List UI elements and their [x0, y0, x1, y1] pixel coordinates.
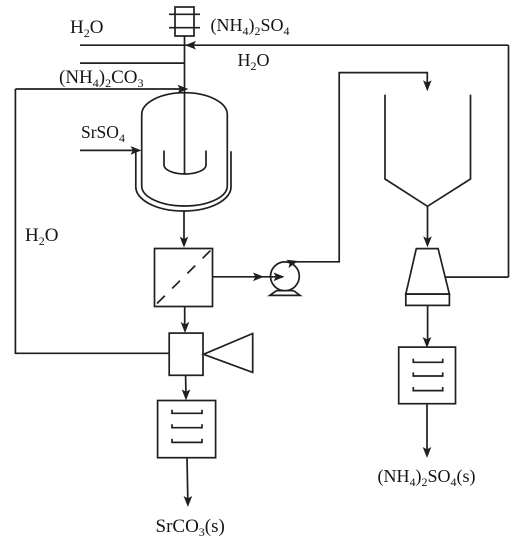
evaporator base: [406, 294, 450, 305]
wire: evaporator vapor line to right vertical: [446, 276, 509, 278]
wire: (NH4)2CO3 line (y=89): [15, 88, 181, 90]
evaporator body: [406, 249, 450, 295]
right dryer tray 1: [413, 359, 442, 363]
wire: wash water left vertical recycle: [15, 89, 169, 353]
wire: pump discharge to settler: [288, 73, 427, 262]
wire: H2O recycle right vertical: [508, 45, 510, 277]
filter F1: [155, 249, 213, 307]
wire: left dryer product out: [186, 458, 189, 499]
right dryer tray 3: [413, 387, 442, 391]
right tray dryer: [399, 347, 456, 404]
reactor jacket: [136, 151, 231, 211]
wire: H2O feed line (top, y=45) from left to right edge: [80, 44, 509, 46]
pump P1: [270, 262, 300, 296]
wire: SrSO4 feed arrow: [80, 149, 133, 151]
svg-text:(NH4)2CO3: (NH4)2CO3: [59, 67, 144, 90]
wire: filtrate to pump: [213, 276, 284, 278]
motor M1 (agitator drive): [169, 7, 200, 36]
left dryer tray 1: [172, 410, 202, 414]
wire: evaporator to right dryer: [427, 305, 429, 340]
svg-text:(NH4)2SO4(s): (NH4)2SO4(s): [378, 466, 476, 489]
wire: filter cake to washer: [184, 307, 186, 326]
svg-text:H2O: H2O: [238, 50, 270, 73]
wire: reactor outlet to filter: [183, 211, 185, 240]
wire: right dryer product out: [426, 404, 428, 450]
right dryer tray 2: [413, 372, 442, 376]
ejector cone: [204, 334, 253, 373]
wire: settler outlet to evaporator: [427, 206, 429, 240]
svg-text:(NH4)2SO4: (NH4)2SO4: [211, 15, 290, 38]
agitator shaft: [184, 36, 186, 174]
wire: washer to left dryer: [185, 375, 187, 393]
svg-text:SrSO4: SrSO4: [81, 122, 125, 145]
left tray dryer: [158, 401, 216, 458]
left dryer tray 2: [172, 424, 202, 428]
left dryer tray 3: [172, 439, 202, 443]
filter diagonal dashed line: [157, 251, 211, 304]
svg-text:H2O: H2O: [70, 17, 103, 40]
svg-text:H2O: H2O: [25, 225, 58, 248]
reactor vessel shell: [142, 93, 228, 206]
svg-text:SrCO3(s): SrCO3(s): [156, 516, 225, 539]
wire: second feed line (y=63): [80, 62, 185, 64]
settler (thickener): [385, 95, 471, 207]
impeller: [164, 151, 206, 174]
washer box: [169, 333, 203, 375]
arrowhead right into vessel top: [178, 85, 189, 94]
arrowhead left into shaft junction: [185, 41, 196, 50]
